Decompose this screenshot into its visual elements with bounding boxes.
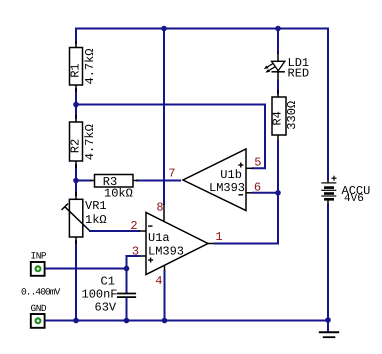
wire U1a pin1 to node C (214, 193, 278, 244)
junction ground rail / right rail (325, 317, 331, 323)
wire R4 to node C (277, 140, 279, 193)
node B junction (R2/R3/VR1) (73, 178, 79, 184)
ground symbol (319, 320, 339, 337)
svg-text:10kΩ: 10kΩ (104, 186, 133, 200)
svg-text:63V: 63V (95, 300, 117, 314)
svg-text:GND: GND (31, 303, 47, 314)
svg-text:1: 1 (215, 230, 222, 244)
LED LD1 (264, 53, 285, 81)
svg-text:5: 5 (254, 156, 261, 170)
wire node D to U1a pin3 (127, 256, 141, 269)
resistor R2 (69, 115, 83, 168)
wire divider mid to U1b pin5 (76, 105, 265, 169)
op-amp U1a (139, 213, 215, 275)
svg-text:U1a: U1a (148, 231, 170, 245)
resistor R3 (90, 175, 138, 190)
junction top rail / VCC drop (161, 26, 167, 32)
junction ground rail / U1a pin4 (162, 318, 168, 324)
wire right rail bottom (battery - to ground rail) (327, 204, 329, 322)
svg-text:8: 8 (156, 201, 163, 215)
svg-text:C1: C1 (101, 275, 115, 289)
svg-text:R4: R4 (270, 111, 284, 125)
svg-text:RED: RED (288, 67, 310, 81)
wire VR1 bottom to ground rail (75, 240, 77, 321)
battery ACCU (321, 176, 336, 204)
wire U1a pin4 to ground rail (164, 270, 166, 321)
wire node B to R3 (76, 180, 92, 182)
wire INP to node D (45, 268, 127, 270)
trimmer VR1 (62, 192, 91, 244)
wire LED cathode to R4 (277, 80, 279, 94)
wire node C to U1b pin6 (252, 192, 278, 194)
resistor R1 (69, 41, 83, 92)
wire right rail top (rail to battery +) (327, 28, 329, 181)
terminal INP (31, 262, 45, 276)
svg-text:4.7kΩ: 4.7kΩ (83, 124, 97, 160)
svg-text:VR1: VR1 (85, 199, 107, 213)
wire left column top (rail to R1) (75, 28, 77, 45)
svg-text:INP: INP (31, 251, 47, 262)
svg-text:7: 7 (168, 167, 175, 181)
svg-text:4V6: 4V6 (344, 193, 364, 205)
junction ground rail / VR1 (73, 318, 79, 324)
svg-text:LM393: LM393 (148, 245, 184, 259)
wire ground rail (45, 320, 328, 322)
node C junction (pin1/pin6/R4) (275, 190, 281, 196)
svg-text:1kΩ: 1kΩ (85, 213, 107, 227)
svg-text:2: 2 (130, 219, 137, 233)
svg-text:4: 4 (155, 274, 162, 288)
terminal GND (31, 314, 45, 328)
wire R3 to U1b pin7 output (136, 180, 181, 182)
wire LED branch (rail to LED anode) (277, 28, 279, 55)
wire R1 to R2 (75, 88, 77, 119)
svg-text:R2: R2 (69, 139, 83, 153)
svg-text:0..400mV: 0..400mV (21, 287, 61, 298)
VCC drop wire (top rail to U1a pin8) (163, 28, 165, 205)
svg-text:R1: R1 (69, 63, 83, 77)
node D junction (INP/pin3/C1) (124, 266, 130, 272)
capacitor C1 (117, 269, 136, 322)
wire top rail (76, 28, 328, 30)
svg-text:LM393: LM393 (209, 181, 245, 195)
U1a pin8 lead (163, 204, 165, 223)
wire VR1 wiper to U1a pin2 (89, 230, 140, 232)
svg-text:U1b: U1b (220, 168, 242, 182)
node A junction (divider mid) (73, 102, 79, 108)
junction top rail / LED branch (275, 26, 281, 32)
resistor R4 (270, 90, 286, 142)
svg-text:4.7kΩ: 4.7kΩ (83, 48, 97, 84)
op-amp U1b (183, 149, 253, 211)
junction ground rail / C1 (124, 318, 130, 324)
wire R2 to node B (75, 164, 77, 196)
svg-text:330Ω: 330Ω (285, 101, 299, 130)
